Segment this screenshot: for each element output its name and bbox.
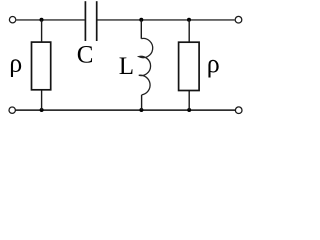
capacitor C right plate (96, 1, 98, 41)
node junction top-right (187, 18, 191, 22)
resistor left (rho) body (32, 42, 51, 90)
wire top rail left segment (16, 19, 85, 21)
svg-text:C: C (77, 42, 94, 69)
terminal top-right (235, 16, 242, 23)
node junction top-left (40, 18, 44, 22)
terminal bottom-right (235, 107, 242, 114)
svg-text:ρ: ρ (207, 49, 220, 78)
svg-text:ρ: ρ (9, 48, 22, 77)
capacitor C left plate (84, 1, 86, 41)
wire left resistor bottom lead (41, 90, 43, 110)
wire left resistor top lead (41, 20, 43, 42)
wire inductor top lead (140, 20, 142, 39)
wire top rail right segment (98, 19, 236, 21)
wire inductor bottom lead (141, 95, 143, 110)
inductor L coil arcs (139, 38, 153, 94)
node junction bottom-right (187, 108, 191, 112)
wire right resistor top lead (188, 20, 190, 43)
terminal bottom-left (9, 107, 15, 113)
wire right resistor bottom lead (188, 91, 190, 111)
node junction bottom-middle (139, 108, 143, 112)
svg-text:L: L (119, 53, 134, 80)
wire bottom rail (15, 109, 235, 111)
resistor right (rho) body (179, 42, 200, 90)
node junction bottom-left (40, 108, 44, 112)
terminal top-left (9, 17, 15, 23)
node junction top-middle (139, 18, 143, 22)
